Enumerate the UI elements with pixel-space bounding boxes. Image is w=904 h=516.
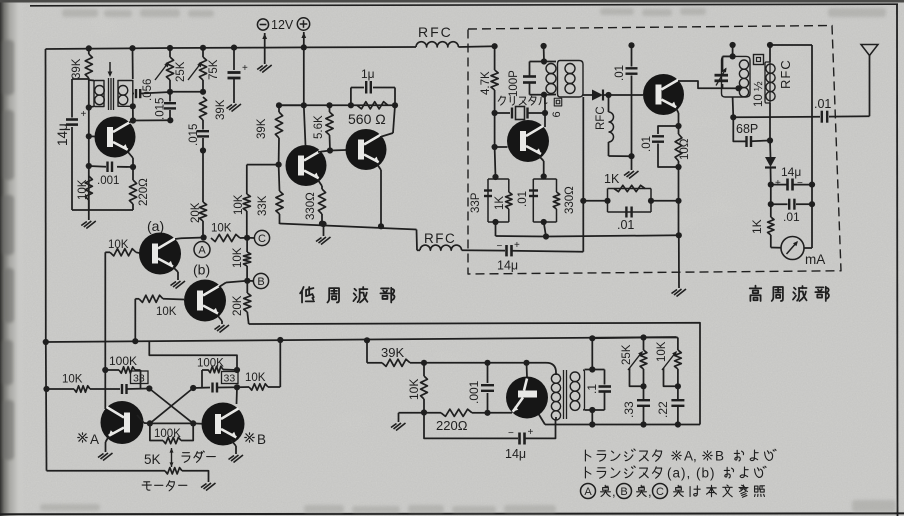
junction pot 25K top (640, 334, 646, 340)
capacitor .015 first (169, 92, 171, 102)
junction secondary bottom (589, 407, 595, 413)
wire: x=89 vertical mic column (88, 48, 90, 54)
junction tank bottom (735, 85, 741, 91)
resistor 10K TRb base (135, 298, 139, 300)
resistor 10K node A to C (211, 234, 240, 241)
wire: plus terminal lead with arrow (303, 32, 305, 47)
wire: bus into RF box (458, 45, 494, 48)
pot 25K tone wiper (628, 352, 642, 370)
network 33P parallel 1K (495, 177, 497, 179)
junction box bottom x=678 (675, 421, 681, 427)
pot 25K wiper arrow (155, 63, 168, 80)
capacitor 33 right plates (193, 387, 210, 390)
junction node A (201, 234, 207, 240)
svg-text:25K: 25K (621, 344, 633, 365)
wire: minus terminal lead with arrow to ground (264, 33, 266, 64)
junction TR1 emitter node y=167 (86, 163, 92, 169)
wire: TRB collector (236, 387, 239, 404)
junction second bus x=279 (276, 102, 282, 108)
label LF section 低周波部 (300, 287, 314, 302)
junction bus at x=234 (231, 45, 237, 51)
svg-text:39K: 39K (71, 58, 83, 79)
svg-text:6: 6 (551, 111, 563, 117)
junction keying ground node (676, 232, 682, 238)
pot 25K vertical (169, 48, 171, 57)
junction TRB base (190, 420, 196, 426)
junction 100K-B bottom (234, 384, 240, 390)
wire: secondary to rail (591, 338, 593, 369)
junction 33P network bottom (492, 219, 498, 225)
wire: x=678 down (678, 167, 680, 201)
node label B (253, 273, 268, 288)
wire TR5 emitter (539, 156, 544, 161)
resistor R1 39K (mic) (85, 54, 92, 78)
note line 3 (581, 484, 596, 499)
figure border top line (30, 4, 898, 6)
junction rail left (43, 339, 49, 345)
wire: to TR3 collector (393, 105, 395, 133)
capacitor .015 second (202, 120, 204, 130)
svg-text:100K: 100K (154, 428, 181, 440)
resistor 100K bottom bridge (150, 423, 163, 440)
junction rail at 330ohm (319, 221, 325, 227)
wire: TR2 emitter to 330ohm (318, 180, 322, 186)
output tank coil box 10.5 turns (722, 56, 751, 97)
junction TR4 emitter node (675, 123, 681, 129)
svg-text:.015: .015 (155, 98, 167, 120)
svg-text:10K: 10K (108, 239, 129, 251)
transformer T1 right winding (118, 81, 133, 107)
resistor 5.6K (329, 105, 331, 112)
junction: bus at 39K R1 (86, 45, 92, 51)
svg-text:.001: .001 (467, 380, 481, 404)
svg-text:33: 33 (133, 373, 145, 385)
svg-text:(a), (b): (a), (b) (667, 466, 716, 481)
junction 25K bottom (640, 383, 646, 389)
svg-text:−: − (508, 428, 514, 439)
wire: pots top link (644, 337, 678, 339)
svg-text:.01: .01 (517, 191, 529, 207)
resistor 39K second (199, 97, 206, 120)
svg-text:20K: 20K (232, 295, 244, 316)
resistor 33K TR2 base-emitter (278, 165, 281, 191)
pot 75K vertical (202, 48, 204, 57)
resistor 10K multivib A (74, 386, 90, 392)
wire: TR2 collector to TR3 base (318, 151, 330, 153)
pot 25K tone (643, 338, 645, 351)
label crystal (498, 96, 505, 105)
wire: meter right to x=812 (804, 247, 812, 249)
svg-text:.01: .01 (814, 97, 831, 111)
ground: supply minus (262, 65, 272, 73)
pot 10K tone (677, 338, 679, 351)
wire: LF bottom rail (280, 224, 417, 230)
junction bus at osc coil (541, 43, 547, 49)
junction osc coil bottom (541, 92, 547, 98)
wire: tone base line (424, 362, 488, 364)
junction osc coil top (541, 58, 547, 64)
ground for bus cap (232, 104, 242, 112)
wire: low rail (46, 337, 677, 342)
RFC4 secondary choke (769, 45, 771, 62)
note line 1 (585, 450, 590, 461)
svg-text:33P: 33P (470, 192, 482, 213)
svg-text:.015: .015 (188, 124, 200, 146)
svg-text:A: A (198, 244, 206, 256)
junction box bottom x=592 (589, 421, 595, 427)
wire: motor line (47, 470, 166, 472)
svg-text:1μ: 1μ (361, 67, 375, 81)
wire: mic stage bottom (72, 209, 133, 211)
wire: riser x=280 to rail (279, 340, 281, 387)
label rudder (182, 453, 190, 463)
junction rail x=135 (132, 338, 138, 344)
junction rail x=280 (277, 337, 283, 343)
wire: transformer secondary top to bus (132, 48, 134, 79)
capacitor 1u + 560ohm feedback (350, 88, 352, 106)
cross coupling X wires (149, 389, 193, 424)
junction rail x=592 (589, 335, 595, 341)
wire: rail drop x=149 to 100K-B (149, 342, 237, 370)
wire: second bus y=105 (279, 104, 395, 106)
wire: crystal node to collector (544, 95, 546, 127)
svg-text:.01: .01 (783, 210, 800, 224)
wire: left boundary vertical (45, 49, 47, 342)
transistor TR4 final (643, 74, 684, 115)
wire: left boundary to motor line (45, 342, 48, 471)
meter mA (781, 237, 804, 260)
svg-text:.056: .056 (142, 79, 154, 101)
battery terminal minus (257, 19, 268, 30)
svg-text:+: + (81, 109, 87, 120)
svg-text:10K: 10K (232, 247, 244, 268)
transistor TRa (139, 233, 181, 275)
resistor 220ohm tone (441, 409, 472, 416)
svg-text:.001: .001 (97, 175, 119, 187)
svg-text:1K: 1K (750, 219, 764, 234)
osc transformer L1 secondary in shield box (558, 61, 584, 98)
junction rail at ground (320, 221, 326, 227)
junction second bus at x=303.8 (301, 102, 307, 108)
junction bus 5.6K (326, 102, 332, 108)
junction keying line (543, 233, 549, 239)
svg-text:+: + (528, 427, 534, 438)
scan bottom edge line (0, 512, 904, 515)
junction x=583 at 1K/.01 (580, 198, 586, 204)
svg-text:−: − (497, 241, 503, 252)
resistor 10K tone (423, 363, 425, 376)
wire: 100K right left drop (201, 370, 203, 388)
svg-text:.01: .01 (641, 136, 653, 152)
label motor (142, 482, 151, 490)
network 1K parallel .01 (608, 189, 652, 213)
resistor 330ohm TR2 (318, 189, 325, 214)
wire: emitter to TR6 (488, 412, 513, 414)
wire: TR1 collector to .015 node (129, 121, 133, 123)
resistor 20K below node B (246, 281, 248, 293)
svg-text:100K: 100K (197, 358, 224, 370)
wire: TRa collector to node A (175, 237, 181, 240)
junction emitter network bottom (541, 219, 547, 225)
wire: TR4 emitter down (676, 108, 679, 113)
svg-text:(b): (b) (193, 262, 210, 278)
svg-text:14μ: 14μ (505, 447, 526, 461)
svg-text:10K: 10K (656, 341, 668, 362)
wire: tone box top edge from 20K (249, 323, 700, 425)
wire: secondary top node (585, 369, 605, 371)
resistor 100K left (105, 369, 119, 371)
junction 1K/.01 left (604, 198, 610, 204)
svg-text:10Ω: 10Ω (679, 138, 691, 160)
label TRA (78, 433, 87, 442)
wire: TRb collector to node B (219, 283, 226, 288)
junction rail at TR3 emitter (378, 223, 384, 229)
wire: tank bottom down to antenna line (732, 97, 735, 117)
label TRB (245, 433, 254, 442)
transistor TR6 tone osc (506, 377, 548, 419)
svg-text:B: B (257, 276, 264, 288)
junction tank top (730, 53, 736, 59)
junction .01 meter (768, 201, 774, 207)
crystal X1 (495, 112, 510, 114)
capacitor 68P (733, 117, 745, 141)
junction 14u meter right (809, 182, 815, 188)
junction x=203 y=150.5 (200, 147, 206, 153)
capacitor .33 (637, 399, 650, 401)
junction left of node C (244, 235, 250, 241)
svg-text:RFC: RFC (595, 106, 607, 130)
junction bus at pot 25K (167, 45, 173, 51)
junction .01/RFC3 bottom (628, 153, 634, 159)
svg-text:560 Ω: 560 Ω (348, 111, 386, 127)
ground TRA (106, 436, 110, 442)
RFC3 choke vertical (609, 112, 614, 142)
wire: 10K-A row (47, 388, 75, 390)
mic input arrow (109, 62, 111, 75)
junction box bottom x=643 (640, 421, 646, 427)
resistor 39K TR2 base (278, 105, 280, 112)
ground motor line (206, 483, 216, 491)
resistor 5K element (165, 468, 182, 474)
svg-text:C: C (656, 486, 664, 498)
wire: antenna line (733, 116, 820, 119)
svg-text:100K: 100K (109, 354, 137, 368)
svg-text:330Ω: 330Ω (564, 186, 576, 214)
tone transformer secondary (570, 372, 580, 382)
transistor TRb (184, 280, 226, 322)
wire: TRB base stub (193, 422, 202, 424)
wire: bus to osc coil top (543, 46, 545, 62)
wire: bus right end down x=812 (811, 45, 813, 248)
junction bus at 4.7K (492, 43, 498, 49)
junction RFC3 top (605, 92, 611, 98)
wire: bus RFC1 entry (416, 42, 458, 47)
svg-text:4.7K: 4.7K (480, 71, 492, 95)
svg-text:−: − (797, 178, 803, 189)
junction tone emitter line left (421, 409, 427, 415)
RFC2 choke coil (420, 245, 462, 250)
svg-text:14μ: 14μ (781, 165, 801, 179)
electrolytic 14u meter (771, 184, 787, 186)
figure border right line (896, 4, 899, 516)
junction bus at pot 75K (200, 45, 206, 51)
svg-text:20K: 20K (190, 202, 202, 223)
wire: A-B link (150, 422, 193, 424)
trimmer capacitor tank (723, 55, 733, 57)
svg-text:14μ: 14μ (497, 259, 518, 273)
capacitor .22 (671, 399, 684, 401)
transistor TRB multivib (202, 403, 245, 446)
capacitor .1 tone (604, 370, 606, 385)
svg-text:B: B (715, 449, 724, 464)
wire: tone box bottom edge (545, 424, 700, 426)
electrolytic 14u modulation (505, 245, 508, 256)
wire: vertical x=247 from TR2 base bracket (246, 165, 248, 194)
junction 560 left (348, 102, 354, 108)
pot 5K speed (171, 448, 173, 467)
svg-text:10K: 10K (245, 372, 266, 384)
svg-text:.01: .01 (614, 65, 626, 81)
junction bus at transformer (129, 45, 135, 51)
junction 10K bottom (675, 383, 681, 389)
wire: primary bottom stub (89, 106, 94, 107)
junction tone collector (523, 360, 529, 366)
svg-text:,: , (648, 484, 652, 499)
transistor TR2 driver (286, 145, 327, 186)
wire: 14u top stub (72, 78, 89, 80)
wire: TR2 base bracket to x=247 (247, 164, 279, 166)
svg-text:.22: .22 (656, 401, 670, 418)
wire: RFC2 into RF box to 14u (462, 249, 505, 251)
svg-text:10K: 10K (62, 374, 83, 386)
junction tone .001 bottom (484, 410, 490, 416)
svg-text:RFC: RFC (424, 231, 456, 246)
junction 1K/.01 right (675, 198, 681, 204)
wire: bus to tank box (732, 45, 734, 56)
junction pot bottoms (167, 89, 173, 95)
svg-text:(a): (a) (147, 218, 164, 234)
wire: secondary bottom down to collector wire (132, 106, 134, 120)
wire: base TR1 (89, 135, 95, 137)
junction bus at .01 x=632 (628, 42, 634, 48)
wire: rail to pots y=337 (592, 337, 643, 340)
transformer T1 core (108, 78, 110, 110)
svg-text:10K: 10K (156, 306, 177, 318)
svg-text:33K: 33K (257, 195, 269, 216)
svg-text:A,: A, (684, 449, 697, 464)
svg-text:68P: 68P (736, 122, 758, 136)
junction emitter network bottom (675, 164, 681, 170)
cap 33 right with box label (222, 372, 239, 384)
wire: 1K/.01 to verticals (583, 200, 607, 202)
svg-text:1K: 1K (494, 196, 506, 210)
wire: coil return x=583 vertical (582, 97, 584, 252)
junction antenna line left (730, 114, 736, 120)
ground LF rail (323, 224, 325, 236)
svg-text:33: 33 (224, 373, 236, 385)
osc transformer L1 primary (546, 64, 556, 74)
wire: plus feed down to second bus (303, 47, 305, 105)
ground RF return (677, 289, 687, 297)
resistor 100K right (202, 369, 208, 371)
wire: main supply bus (left section) (46, 47, 417, 49)
resistor 10K on x=247 (243, 194, 250, 211)
svg-text:100P: 100P (508, 70, 520, 97)
svg-text:12V: 12V (271, 18, 294, 32)
svg-text:.33: .33 (622, 401, 636, 418)
wire: bus drop to TR2 collector top (304, 105, 306, 145)
resistor 1K meter (770, 204, 772, 217)
svg-text:.1: .1 (585, 384, 599, 394)
junction .015 bottom (167, 117, 173, 123)
svg-text:.01: .01 (617, 218, 634, 232)
svg-text:220Ω: 220Ω (436, 418, 468, 433)
tone transformer core (563, 370, 565, 419)
wire: TR3 emitter down (377, 164, 381, 170)
capacitor .056 coupling (133, 93, 134, 95)
wire: TR5 base (495, 146, 508, 148)
resistor 10K between C and B rows (246, 238, 248, 252)
wire: TRA collector from x=105 (104, 370, 106, 409)
svg-text:25K: 25K (175, 61, 187, 82)
wire: emitter TR1 to 220ohm top (128, 152, 133, 158)
svg-text:10K: 10K (233, 194, 245, 215)
capacitor 100P across L1 (530, 61, 545, 63)
svg-text:10 ½: 10 ½ (753, 81, 765, 107)
wire second bus left stub (279, 104, 304, 106)
tone transformer primary (551, 374, 560, 383)
svg-text:14μ: 14μ (55, 123, 70, 146)
junction bus at RFC4 (767, 42, 773, 48)
svg-text:10K: 10K (211, 223, 232, 235)
junction TRA base (147, 420, 153, 426)
junction: plus to bus (301, 44, 307, 50)
junction TR5 emitter network top (541, 173, 547, 179)
wire: TRb base feed x=135 from low rail (134, 299, 136, 341)
resistor 4.7K (494, 46, 496, 70)
svg-text:A: A (584, 486, 592, 498)
capacitor 14u electrolytic (mic) (71, 79, 73, 118)
svg-text:39K: 39K (256, 118, 268, 139)
ground tone (398, 413, 400, 422)
wire: down to RF ground (678, 235, 680, 288)
wire: secondary bottom to box bottom (591, 410, 593, 425)
junction secondary top (589, 366, 595, 372)
resistor 10K mic emitter (85, 176, 92, 200)
resistor 10K TRa base (105, 251, 110, 253)
junction base TR1 (86, 133, 92, 139)
junction 33P network top (492, 174, 498, 180)
transistor TR1 mic amp (95, 117, 136, 158)
svg-text:B: B (257, 432, 266, 447)
transistor TR5 crystal osc (507, 120, 549, 162)
pot 10K tone wiper (662, 352, 676, 370)
svg-text:+: + (775, 178, 781, 189)
svg-text:75K: 75K (208, 59, 220, 80)
svg-text:B: B (620, 486, 627, 498)
junction 10K-A left (43, 386, 49, 392)
RF section dashed enclosure (468, 26, 841, 275)
capacitor .01 antenna (821, 111, 823, 123)
node label A (194, 242, 210, 258)
network .01 parallel 330ohm (533, 179, 556, 222)
diode D1 (583, 94, 592, 96)
label HF section 高周波部 (750, 286, 762, 301)
junction rail x=367 (364, 337, 370, 343)
svg-text:RFC: RFC (778, 59, 793, 89)
junction TR2 base (276, 162, 282, 168)
wire: TR4 collector jog to tank (678, 81, 723, 88)
